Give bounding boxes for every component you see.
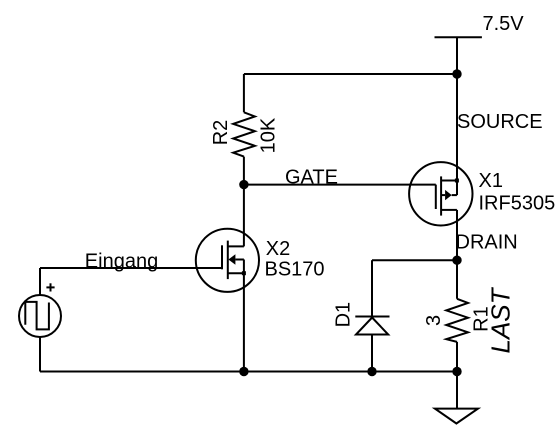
wire X2 source rail down to bottom wire: [243, 273, 245, 371]
wire R1 bottom lead: [456, 342, 458, 372]
ground: [435, 409, 478, 424]
wire gate net horizontal: [244, 184, 436, 186]
wire to ground: [456, 372, 458, 409]
wire D1 bottom lead: [371, 335, 373, 372]
wire top horizontal from R2 to power node: [244, 73, 457, 75]
svg-text:IRF5305: IRF5305: [479, 193, 556, 215]
node X2 source junction: [239, 367, 248, 376]
wire Eingang horizontal to X2 gate: [40, 267, 222, 269]
svg-text:7.5V: 7.5V: [483, 13, 525, 35]
svg-text:R2: R2: [210, 120, 232, 146]
node gate junction: [239, 180, 248, 189]
svg-text:3: 3: [423, 315, 445, 326]
wire X2 drain rail up to gate node: [243, 185, 245, 247]
svg-text:LAST: LAST: [486, 286, 516, 353]
node R1 junction: [452, 367, 461, 376]
resistor R2: [233, 112, 255, 156]
svg-text:X2: X2: [266, 238, 290, 260]
diode D1: [355, 317, 389, 335]
svg-text:BS170: BS170: [265, 258, 325, 280]
wire X1 drain rail down to drain node: [456, 210, 458, 299]
node D1 junction: [367, 367, 376, 376]
wire R2 bottom lead: [243, 157, 245, 185]
wire D1 top lead: [371, 260, 373, 316]
svg-text:DRAIN: DRAIN: [456, 232, 518, 254]
node power junction: [452, 69, 461, 78]
svg-text:SOURCE: SOURCE: [457, 111, 543, 133]
transistor X2: [196, 229, 259, 292]
wire left vertical down to source: [39, 268, 41, 295]
svg-text:10K: 10K: [257, 117, 279, 153]
svg-text:D1: D1: [332, 302, 354, 328]
svg-text:Eingang: Eingang: [85, 250, 158, 272]
svg-text:X1: X1: [479, 170, 503, 192]
node drain junction: [452, 256, 461, 265]
wire drain horizontal to D1: [372, 259, 457, 261]
wire below source circle: [39, 337, 41, 372]
svg-text:GATE: GATE: [285, 166, 338, 188]
transistor X1: [409, 162, 472, 225]
wire R2 top lead: [243, 74, 245, 112]
resistor R1: [446, 299, 468, 342]
power rail 7.5V bar: [435, 36, 482, 38]
wire bottom ground net: [40, 371, 457, 373]
voltage source V1: [19, 283, 61, 337]
wire power rail down through X1 source/substrate: [456, 37, 458, 195]
